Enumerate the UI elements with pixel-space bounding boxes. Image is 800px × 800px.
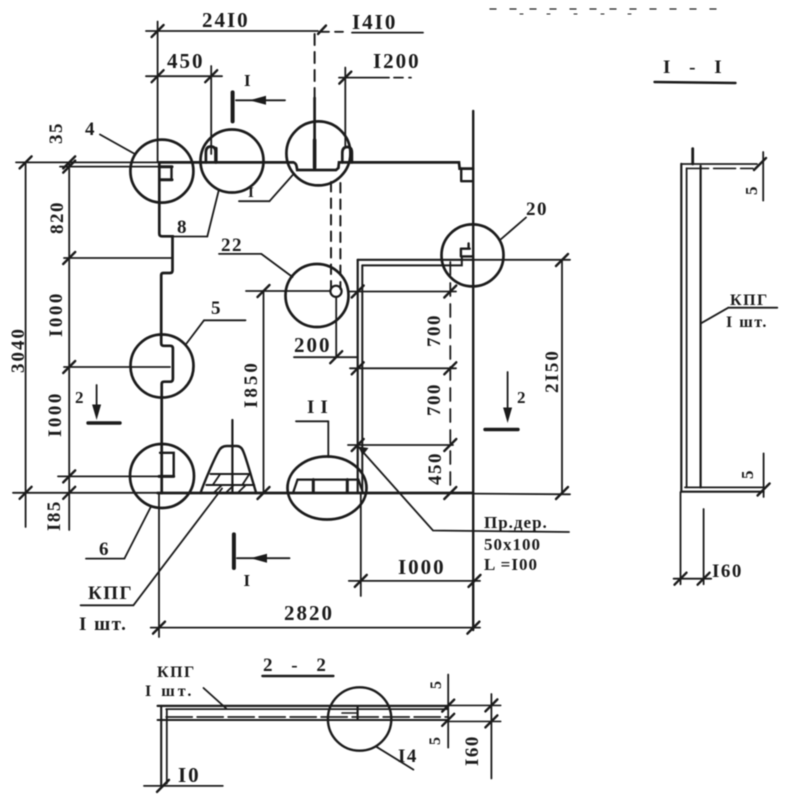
svg-text:2 - 2: 2 - 2 (263, 655, 333, 676)
svg-text:200: 200 (294, 333, 332, 357)
svg-text:20: 20 (526, 199, 548, 220)
chain slashes (352, 286, 364, 298)
svg-text:I шт.: I шт. (145, 683, 194, 700)
dim 1000 bottom right (349, 580, 480, 582)
profile top lines (681, 163, 757, 165)
svg-text:I: I (244, 571, 252, 590)
section mark I bottom (232, 534, 236, 568)
chain tick y=368.3 (350, 367, 456, 369)
lifting hook in circle 2 (206, 147, 216, 163)
section mark 2 left (88, 421, 120, 424)
extension line x=157.6 (157, 22, 159, 163)
tick y=492.8 (185 / bottom) (13, 492, 158, 494)
top 5 dim (762, 152, 764, 201)
svg-text:450: 450 (167, 49, 205, 73)
extension line x=345.3 (344, 68, 346, 147)
svg-text:I4I0: I4I0 (352, 10, 397, 34)
section mark I top (231, 92, 235, 121)
bell hatching (214, 485, 222, 492)
svg-text:Пр.дер.: Пр.дер. (484, 513, 548, 532)
svg-text:I0: I0 (178, 763, 201, 787)
svg-text:5: 5 (427, 736, 444, 746)
opening top outer line (358, 259, 473, 261)
svg-text:5: 5 (738, 470, 757, 480)
tick y=258 (820) (64, 257, 171, 259)
dim 1850 vertical (263, 291, 265, 493)
svg-text:I4: I4 (398, 746, 418, 767)
svg-text:L =I00: L =I00 (484, 555, 538, 574)
hook stub on top (691, 149, 694, 164)
svg-text:5: 5 (742, 186, 761, 196)
dim 200 (294, 356, 358, 358)
detail circle 3 (286, 121, 350, 185)
dim 450 line (146, 75, 222, 77)
chain dim line x=450.3 dashed (449, 262, 451, 493)
detail circle 5 (131, 335, 194, 398)
svg-text:I000: I000 (398, 555, 446, 579)
svg-text:5: 5 (428, 680, 445, 690)
detail ellipse 11 (288, 457, 367, 520)
panel centerline / pin in circle 3 (314, 34, 316, 98)
label 14 (376, 747, 413, 770)
tick y=166.6 (35) (60, 166, 159, 168)
corner step detail in circle 20 (461, 244, 473, 257)
dim 2820 (151, 627, 480, 629)
label Pr.der. (358, 447, 368, 456)
svg-text:I: I (244, 71, 252, 90)
left leg inner (166, 709, 168, 784)
bottom 5 dim (763, 453, 765, 497)
bottom edge extension to 2150 dim (473, 493, 570, 496)
svg-text:2I50: 2I50 (542, 349, 563, 393)
liner line 3 (166, 716, 448, 718)
left dim line outer x=25.6 (25, 162, 27, 527)
groove lines in circle 4 (159, 165, 172, 168)
svg-text:820: 820 (47, 201, 68, 234)
opening left outer edge (357, 260, 359, 493)
right end dim vertical 5/5 (447, 675, 449, 748)
bell centerline (231, 420, 233, 493)
svg-text:3040: 3040 (8, 327, 29, 373)
bell horizontal lines (211, 473, 250, 475)
hidden keyway slot dashed lines (330, 182, 332, 289)
chain tick y=445 (348, 444, 453, 446)
view label I with bent leader (from circle 3) (270, 175, 293, 201)
left edge extension below (158, 493, 160, 637)
section mark 2 right (485, 428, 518, 431)
liner seam in circle 14 (357, 707, 359, 720)
scan noise dots top right (490, 8, 722, 10)
profile top line (158, 705, 449, 707)
profile bottom line (158, 719, 449, 721)
profile liner inner line (686, 168, 688, 487)
dim 10 (144, 785, 223, 787)
bell-shaped loop detail outline (201, 446, 257, 493)
detail circle 4 (130, 140, 193, 203)
svg-text:6: 6 (99, 539, 110, 560)
svg-text:II: II (307, 397, 334, 418)
extension line x=211.2 (210, 66, 212, 154)
svg-text:I000: I000 (45, 391, 66, 437)
svg-text:I: I (248, 185, 254, 201)
panel top edge with recess (159, 162, 473, 170)
ticks to 160 dim (448, 704, 501, 706)
svg-text:700: 700 (424, 383, 445, 416)
dim 1410 line (352, 32, 423, 34)
svg-text:2: 2 (75, 388, 85, 407)
lifting hook right of circle 3 (342, 147, 352, 162)
svg-text:4: 4 (85, 119, 96, 140)
svg-text:КПГ: КПГ (730, 292, 769, 309)
svg-text:2820: 2820 (284, 601, 334, 625)
svg-text:50х100: 50х100 (484, 535, 541, 554)
tick y=162.4 (16, 161, 159, 163)
detail circle 6 (130, 444, 194, 508)
keyhole stem line (335, 298, 337, 358)
liner line 2 (166, 708, 448, 710)
svg-text:700: 700 (424, 314, 445, 347)
profile bottom lines (685, 486, 764, 488)
slashes on left dim lines (63, 156, 75, 168)
svg-text:35: 35 (46, 122, 67, 144)
opening top line extension to 2150 dim (473, 259, 570, 261)
chain tick y=291.5 (350, 291, 456, 293)
profile right line (699, 166, 701, 487)
svg-text:I60: I60 (462, 735, 483, 766)
dim 2410 line (146, 30, 318, 32)
svg-text:I60: I60 (712, 561, 743, 582)
svg-text:I000: I000 (46, 291, 67, 337)
svg-text:КПГ: КПГ (88, 583, 133, 604)
svg-text:I200: I200 (373, 49, 421, 73)
dim 160 vertical (490, 694, 492, 779)
opening top inner line (362, 256, 462, 265)
dim 1200 line (339, 77, 389, 79)
svg-text:КПГ: КПГ (157, 664, 196, 681)
dim 2150 vertical (561, 260, 563, 493)
panel left edge with steps (159, 162, 173, 493)
tick y=367 (1000) (64, 366, 170, 368)
top-right corner notch (461, 169, 473, 182)
left dim line inner x=69.2 (68, 162, 70, 530)
left leg outer (160, 706, 162, 786)
svg-text:2: 2 (517, 388, 527, 407)
dim 160 (674, 578, 712, 580)
panel right edge + extensions (472, 111, 474, 630)
detail circle 22 (286, 264, 349, 327)
svg-text:I - I: I - I (663, 57, 729, 78)
svg-text:22: 22 (221, 235, 243, 256)
opening left inner edge (361, 265, 363, 493)
detail circle 2 (201, 130, 264, 193)
svg-text:I850: I850 (241, 360, 262, 408)
svg-text:24I0: 24I0 (202, 8, 250, 32)
panel bottom edge (158, 492, 473, 495)
detail circle 14 (328, 687, 391, 750)
svg-text:I шт.: I шт. (79, 614, 127, 635)
keyway trapezoid in circle 11 (293, 480, 363, 493)
svg-text:5: 5 (211, 298, 222, 319)
notch in circle 6 (160, 453, 174, 476)
tick y=476.4 (1000) (58, 475, 160, 477)
detail circle 20 (442, 224, 504, 286)
profile left outer line (680, 164, 682, 492)
keyhole circle in circle 22 (330, 286, 341, 297)
svg-text:I шт.: I шт. (726, 314, 768, 331)
opening edge extension below (1000 dim) (360, 493, 362, 596)
svg-text:I85: I85 (44, 500, 65, 531)
svg-text:450: 450 (425, 452, 446, 485)
svg-text:8: 8 (177, 217, 188, 238)
